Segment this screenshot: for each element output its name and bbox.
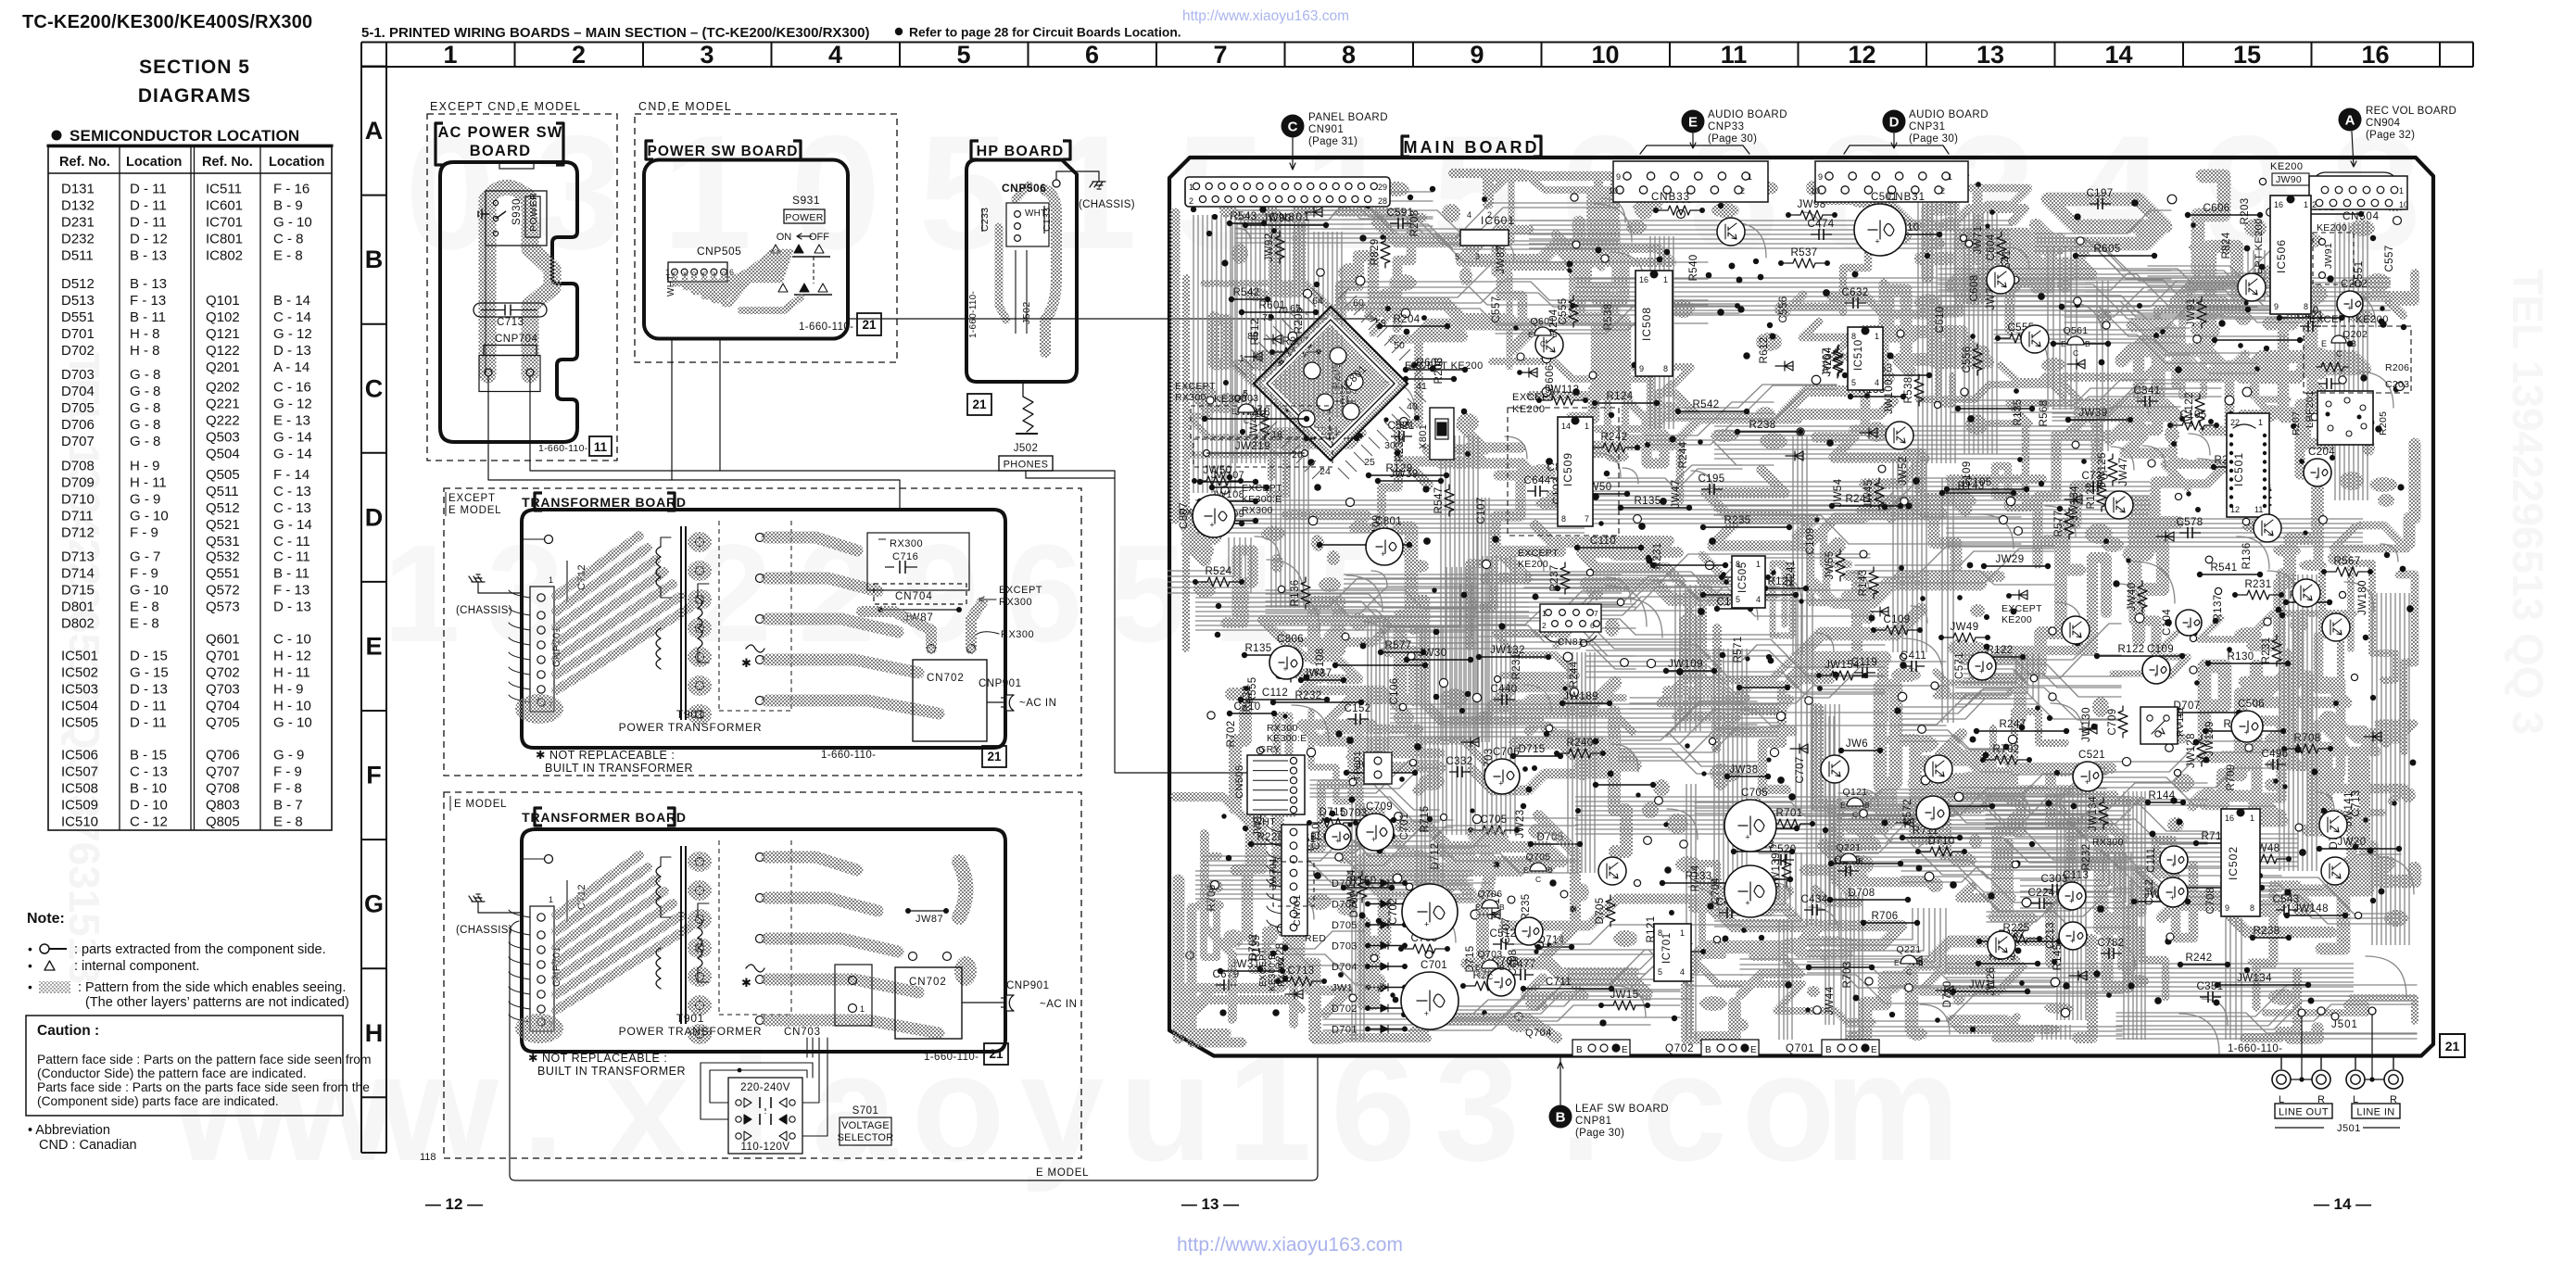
svg-text:R708: R708 [2293, 733, 2320, 744]
svg-text:1: 1 [860, 1004, 865, 1014]
svg-text:J501: J501 [2337, 1123, 2361, 1134]
svg-text:+: + [1381, 549, 1385, 559]
svg-text:E: E [1622, 1045, 1628, 1055]
bottom-left corner fat traces [1173, 880, 1185, 1038]
svg-text:C806: C806 [1277, 634, 1304, 645]
switch S930 block [486, 191, 547, 246]
svg-text:C - 13: C - 13 [273, 500, 311, 516]
svg-text:G - 7: G - 7 [130, 549, 160, 564]
main board vias (filled) [1191, 182, 2417, 1032]
transistor at 2447,570 [2254, 514, 2281, 542]
svg-text:— 13 —: — 13 — [1181, 1195, 1239, 1213]
svg-text:50: 50 [1394, 340, 1405, 351]
svg-text:w: w [275, 1022, 396, 1193]
svg-text:B: B [1705, 1045, 1711, 1055]
svg-text:KE200: KE200 [2001, 614, 2032, 625]
svg-text:Pattern face side : Parts on: Pattern face side : Parts on the pattern… [37, 1053, 371, 1066]
svg-text:C233: C233 [979, 208, 991, 232]
switch S930 contacts [493, 200, 498, 205]
svg-text:1: 1 [1227, 1022, 1312, 1193]
svg-text:C: C [1244, 416, 1249, 425]
test point TP801 [1364, 752, 1392, 784]
svg-text:+: + [1498, 778, 1503, 788]
svg-text:✱: ✱ [741, 976, 751, 990]
svg-text:5: 5 [956, 41, 970, 69]
svg-text:C543: C543 [2272, 894, 2299, 905]
svg-text:Q601: Q601 [206, 632, 240, 648]
svg-text:B - 13: B - 13 [130, 276, 167, 292]
svg-text:G - 14: G - 14 [273, 430, 312, 446]
svg-text:• Abbreviation: • Abbreviation [28, 1123, 110, 1138]
svg-text:10: 10 [1811, 186, 1820, 196]
capacitor C713 [474, 303, 547, 317]
bottom transistor sockets Q70x [1572, 1040, 1630, 1056]
svg-text:JW71: JW71 [1973, 226, 1984, 255]
capacitor C707 [1515, 917, 1543, 945]
svg-text:D704: D704 [61, 384, 95, 399]
svg-text:D - 11: D - 11 [130, 198, 167, 214]
svg-text:IC508: IC508 [61, 781, 98, 797]
svg-text:R612: R612 [1759, 336, 1770, 363]
svg-text:D - 13: D - 13 [273, 599, 311, 614]
svg-text:KE200: KE200 [2317, 222, 2347, 233]
svg-text:R135: R135 [1634, 496, 1661, 507]
svg-text:Q703: Q703 [1478, 949, 1503, 960]
svg-text:: Pattern from the side which: : Pattern from the side which enables se… [78, 980, 346, 995]
dashed secondary box [790, 840, 792, 1015]
svg-text:D711: D711 [61, 508, 94, 524]
svg-text:SECTION 5: SECTION 5 [139, 57, 250, 78]
long wire main board to E model area [510, 930, 1318, 1180]
svg-text:EXCEPT: EXCEPT [1175, 381, 1216, 392]
svg-text:4: 4 [1875, 378, 1879, 387]
svg-text:Q531: Q531 [206, 534, 240, 549]
svg-text:H - 9: H - 9 [273, 682, 304, 698]
svg-text:65: 65 [1290, 303, 1301, 314]
svg-text:Q222: Q222 [206, 413, 240, 429]
svg-text:1: 1 [443, 41, 457, 69]
svg-text:14: 14 [1561, 422, 1571, 431]
svg-text:110-120V: 110-120V [740, 1142, 789, 1153]
svg-text:T901: T901 [676, 708, 705, 721]
svg-text:R231: R231 [2244, 579, 2271, 590]
svg-text:5: 5 [1736, 595, 1740, 604]
svg-text:55: 55 [1375, 318, 1386, 329]
svg-text:D - 10: D - 10 [130, 798, 168, 814]
svg-text:E: E [1231, 407, 1237, 416]
svg-text:75: 75 [1262, 312, 1273, 323]
capacitor C113 [2058, 882, 2086, 910]
chassis ground + wire [478, 902, 522, 913]
E model fat blobs right [959, 862, 966, 917]
svg-text:Q201: Q201 [206, 360, 240, 375]
svg-text:21: 21 [987, 750, 1002, 764]
svg-text:C: C [1288, 120, 1298, 135]
transistor Q803 [1238, 404, 1255, 412]
capacitor C701 [1401, 972, 1458, 1029]
svg-text:JW38: JW38 [1730, 764, 1759, 776]
semiconductor location heading [52, 131, 62, 141]
svg-text:G - 10: G - 10 [273, 715, 312, 731]
svg-text:PHONES: PHONES [1004, 460, 1049, 471]
svg-text:IC701: IC701 [1661, 932, 1673, 964]
fan of copper traces from CNP701 [556, 536, 639, 596]
svg-text:R537: R537 [1790, 247, 1817, 259]
transistor Q601 [1534, 327, 1551, 335]
svg-text:JW40: JW40 [2127, 583, 2138, 612]
svg-text:+: + [1282, 664, 1287, 674]
svg-text:D232: D232 [61, 232, 95, 247]
svg-text:E: E [1834, 856, 1839, 865]
switch contact triangles row2 [778, 284, 788, 292]
svg-text:Q102: Q102 [206, 309, 240, 325]
svg-text:J502: J502 [1014, 443, 1039, 454]
svg-text:Q805: Q805 [206, 814, 240, 830]
svg-text:JW47: JW47 [2118, 458, 2129, 486]
svg-text:1: 1 [2258, 418, 2263, 427]
svg-text:C109: C109 [1962, 461, 1973, 487]
svg-text:X801: X801 [1418, 424, 1429, 449]
svg-text:JW134: JW134 [2237, 973, 2272, 984]
primary coil symbols [656, 866, 661, 907]
svg-text:Q504: Q504 [206, 447, 240, 462]
left edge fat column [1170, 213, 1181, 519]
svg-text:D713: D713 [61, 549, 95, 564]
svg-text:R231: R231 [2261, 637, 2272, 663]
svg-text:R715: R715 [1420, 805, 1431, 832]
svg-text:IC504: IC504 [61, 699, 98, 714]
transformer pad column left [696, 538, 704, 547]
svg-text:6: 6 [1590, 621, 1595, 630]
svg-text:E: E [1840, 801, 1846, 810]
svg-text:C705: C705 [1480, 814, 1507, 826]
svg-text:10: 10 [1591, 41, 1619, 69]
svg-text:Q803: Q803 [206, 798, 240, 814]
svg-text:IC506: IC506 [2275, 239, 2288, 273]
svg-text:Location: Location [269, 155, 324, 170]
main board trace corner arcs [1168, 173, 2417, 1054]
svg-text:R542: R542 [1692, 399, 1719, 410]
CNP505 fan traces [675, 274, 781, 284]
svg-text:JW134: JW134 [2088, 796, 2099, 831]
svg-text:C203: C203 [2385, 379, 2409, 390]
svg-text:LPF201: LPF201 [2305, 390, 2316, 428]
svg-text:✱ NOT REPLACEABLE :: ✱ NOT REPLACEABLE : [528, 1052, 667, 1065]
svg-text:1: 1 [1748, 172, 1752, 182]
svg-text:B: B [1256, 407, 1261, 416]
svg-text:D: D [1889, 115, 1900, 131]
svg-text:C708: C708 [2205, 887, 2216, 914]
svg-text:IC501: IC501 [61, 649, 98, 664]
connector CN505 [1247, 755, 1305, 814]
svg-text:R568: R568 [2039, 399, 2050, 426]
svg-text:E: E [1523, 865, 1529, 875]
svg-text:Q803: Q803 [1234, 393, 1259, 404]
marker E audio board CNP33 [1682, 110, 1705, 133]
svg-text:R136: R136 [2241, 542, 2253, 569]
svg-text:S931: S931 [792, 194, 820, 207]
svg-text:6: 6 [1085, 41, 1099, 69]
main board title [1402, 136, 1409, 157]
svg-text:1: 1 [383, 515, 460, 671]
svg-text:D512: D512 [61, 276, 95, 292]
svg-text:C: C [1540, 339, 1546, 348]
S931 POWER box [784, 209, 825, 223]
svg-text:G - 8: G - 8 [130, 400, 160, 416]
svg-text:C713: C713 [1287, 965, 1314, 977]
svg-text:D709: D709 [61, 474, 95, 490]
svg-text:G - 10: G - 10 [273, 215, 312, 231]
svg-text:B - 15: B - 15 [130, 748, 167, 764]
wire from CNP704 pin2 to main area [530, 376, 1115, 471]
POWER SW BOARD title [646, 141, 653, 159]
svg-text:JW128: JW128 [2186, 733, 2197, 768]
svg-text:H - 11: H - 11 [130, 474, 167, 490]
transistor at 2520,940 [2321, 857, 2349, 885]
svg-text:11: 11 [1721, 41, 1748, 69]
svg-text:C496: C496 [2261, 749, 2288, 760]
svg-text:D802: D802 [61, 615, 95, 631]
svg-text:R701: R701 [1775, 808, 1802, 819]
svg-text:1: 1 [2399, 186, 2404, 196]
svg-text:1: 1 [1496, 246, 1500, 256]
svg-text:R208: R208 [1409, 209, 1421, 236]
svg-text:R577: R577 [2053, 510, 2065, 536]
svg-text:D - 13: D - 13 [130, 682, 168, 698]
svg-text:C521: C521 [2078, 750, 2105, 761]
svg-text:70: 70 [1277, 305, 1288, 316]
svg-text:1-660-110-: 1-660-110- [538, 443, 588, 454]
svg-text:C701: C701 [1421, 960, 1447, 971]
svg-text:Q503: Q503 [206, 430, 240, 446]
svg-text:C556: C556 [1962, 346, 1973, 372]
svg-text:SELECTOR: SELECTOR [838, 1132, 894, 1143]
svg-text:TRANSFORMER BOARD: TRANSFORMER BOARD [522, 495, 687, 510]
svg-text:16: 16 [1271, 429, 1282, 440]
svg-text:C - 13: C - 13 [130, 764, 168, 780]
svg-text:E: E [1894, 958, 1900, 967]
CN702 box [913, 660, 987, 741]
svg-text:Ref. No.: Ref. No. [202, 155, 253, 170]
secondary coil [698, 598, 702, 649]
svg-text:Q601: Q601 [1531, 316, 1556, 327]
transformer pad column left [696, 858, 704, 866]
svg-text:H - 9: H - 9 [130, 458, 160, 473]
transistor at 1980,830 [1821, 755, 1849, 783]
svg-text:•: • [28, 941, 32, 956]
svg-text:G - 9: G - 9 [130, 491, 160, 507]
svg-text:D715: D715 [1518, 744, 1545, 755]
svg-text:C709: C709 [2107, 708, 2118, 735]
wire HP to main board [850, 316, 1377, 322]
svg-text:.: . [522, 1022, 564, 1193]
svg-text:— 14 —: — 14 — [2314, 1195, 2371, 1213]
svg-text:JW26: JW26 [1986, 967, 1997, 996]
svg-text:C - 12: C - 12 [130, 814, 168, 830]
svg-text:24: 24 [1320, 466, 1331, 477]
svg-text:A: A [365, 117, 384, 145]
svg-text:R538: R538 [1603, 303, 1614, 330]
svg-text:E: E [1871, 1045, 1877, 1055]
svg-text:G - 14: G - 14 [273, 517, 312, 533]
transistor at 2521,677 [2322, 613, 2350, 641]
svg-text:Q708: Q708 [206, 781, 240, 797]
svg-text:21: 21 [972, 398, 987, 411]
svg-text:B: B [1547, 865, 1553, 875]
svg-text:C807: C807 [1179, 502, 1190, 529]
svg-text:E - 8: E - 8 [273, 814, 303, 830]
capacitor C572 [1916, 796, 1950, 829]
svg-text:12: 12 [1848, 41, 1875, 69]
svg-text:B: B [1864, 801, 1870, 810]
svg-text:5: 5 [1455, 252, 1459, 261]
capacitor C104 [2176, 610, 2202, 636]
svg-text:2: 2 [572, 41, 586, 69]
capacitor C702 [1402, 884, 1458, 940]
svg-text:F: F [366, 762, 382, 789]
svg-text:21: 21 [2445, 1039, 2460, 1054]
svg-text:+: + [1498, 982, 1503, 991]
IC801 pin rays [1235, 288, 1426, 479]
svg-text:JW52: JW52 [1898, 457, 1909, 486]
svg-text:E: E [1475, 963, 1481, 972]
svg-text:MAIN BOARD: MAIN BOARD [1404, 138, 1540, 157]
svg-text:+: + [2070, 936, 2075, 945]
svg-text:(Conductor Side) the patter: (Conductor Side) the pattern face are in… [37, 1066, 307, 1080]
svg-text:B - 11: B - 11 [273, 565, 309, 581]
LINE IN box [2352, 1104, 2400, 1118]
svg-text:C: C [365, 374, 384, 402]
svg-text:C434: C434 [1800, 894, 1827, 905]
svg-text:CN801: CN801 [1269, 210, 1311, 223]
svg-text:R824: R824 [2221, 232, 2232, 259]
svg-text:CNP81: CNP81 [1575, 1116, 1612, 1127]
svg-text:+: + [2315, 473, 2319, 482]
svg-text:E - 8: E - 8 [273, 248, 303, 264]
AC POWER SW BOARD title [436, 123, 443, 165]
svg-text:•: • [28, 979, 32, 994]
svg-text:x: x [604, 1022, 689, 1193]
svg-text:C152: C152 [1344, 703, 1370, 714]
svg-text:(Page 30): (Page 30) [1708, 133, 1757, 145]
transistor at 2092,830 [1925, 755, 1952, 783]
svg-text:B - 9: B - 9 [273, 198, 303, 214]
svg-text:10: 10 [1609, 186, 1618, 196]
svg-text:GRY: GRY [1258, 744, 1281, 755]
svg-text:CN704: CN704 [895, 591, 933, 602]
svg-text:Q551: Q551 [206, 565, 240, 581]
svg-text:D714: D714 [61, 565, 95, 581]
selector outer wiring [710, 1070, 807, 1103]
svg-text:B - 10: B - 10 [130, 781, 167, 797]
secondary pads + fat fingers [756, 534, 764, 542]
IC508 [1635, 271, 1673, 376]
svg-text:J502: J502 [1021, 301, 1032, 324]
svg-text:RV111: RV111 [2175, 707, 2186, 737]
svg-text:•: • [28, 958, 32, 973]
svg-text:C701: C701 [1399, 813, 1410, 839]
svg-text:9: 9 [1470, 41, 1484, 69]
svg-text:D705: D705 [61, 400, 95, 416]
svg-text:+: + [2171, 860, 2176, 869]
svg-text:(Component side) parts face: (Component side) parts face are indicate… [37, 1094, 279, 1108]
svg-text:JW23: JW23 [1515, 810, 1526, 839]
svg-text:8: 8 [1561, 514, 1566, 524]
svg-text:JW139: JW139 [2204, 721, 2216, 756]
capacitor C202 [2337, 291, 2363, 317]
svg-text:C801: C801 [1375, 516, 1402, 527]
CN703 connector [835, 965, 872, 1026]
capacitor C501 [1854, 204, 1906, 256]
svg-text:C107: C107 [1476, 497, 1487, 524]
svg-text:i: i [729, 1022, 772, 1193]
svg-text:8: 8 [1342, 41, 1356, 69]
svg-text:R237: R237 [1549, 564, 1560, 591]
svg-text:R571: R571 [1733, 636, 1744, 663]
svg-text:JW20: JW20 [2338, 837, 2367, 848]
transformer T901 core [680, 526, 682, 720]
svg-text:G - 8: G - 8 [130, 384, 160, 399]
svg-text:1-660-110-: 1-660-110- [2228, 1043, 2282, 1054]
svg-text:H - 12: H - 12 [273, 649, 311, 664]
svg-text:JW49: JW49 [1951, 622, 1979, 633]
capacitor C801 [1366, 528, 1403, 565]
svg-text:C501: C501 [1871, 192, 1898, 203]
svg-text:TRANSFORMER BOARD: TRANSFORMER BOARD [522, 810, 687, 825]
svg-text:4: 4 [1467, 210, 1471, 220]
svg-text:C608: C608 [1969, 274, 1980, 301]
svg-text:JW45: JW45 [1863, 480, 1875, 509]
svg-text:4: 4 [1680, 967, 1685, 977]
svg-text:Q121: Q121 [1843, 787, 1868, 798]
svg-text:C704: C704 [1711, 877, 1722, 904]
svg-text:Q532: Q532 [206, 549, 240, 564]
svg-text:KE200: KE200 [1512, 404, 1546, 415]
IC509 + except KE200 dashed box [1508, 408, 1619, 536]
connector CN801 [1185, 177, 1390, 207]
svg-text:D703: D703 [1332, 941, 1357, 953]
svg-text:A: A [2345, 113, 2355, 129]
svg-text:RX300: RX300 [1267, 723, 1298, 734]
svg-text:R205: R205 [2378, 411, 2389, 435]
capacitor C710 [1325, 824, 1351, 850]
svg-text:R238: R238 [1749, 420, 1775, 431]
capacitor C706 [1484, 759, 1520, 794]
svg-text:D715: D715 [1319, 807, 1345, 818]
svg-text:Q561: Q561 [2064, 325, 2089, 336]
svg-text:C506: C506 [2238, 699, 2265, 710]
svg-text:E: E [1475, 902, 1481, 912]
svg-text:C: C [1852, 810, 1858, 819]
svg-text:D702: D702 [61, 343, 95, 359]
svg-text:R232: R232 [1395, 435, 1406, 461]
svg-text:D706: D706 [1332, 900, 1357, 911]
svg-text:(Page 30): (Page 30) [1909, 133, 1958, 145]
svg-text:CN504: CN504 [2342, 211, 2380, 222]
transistor at 2287,545 [2105, 491, 2133, 519]
EXCEPT KE200 dashed box Q202 [2304, 326, 2411, 393]
voltage selector block [728, 1078, 802, 1154]
svg-text:80: 80 [1247, 331, 1258, 342]
transistor Q561 [2067, 336, 2084, 345]
svg-text:RX300: RX300 [999, 597, 1032, 608]
svg-text:11: 11 [2254, 505, 2263, 514]
svg-text:✱: ✱ [741, 656, 751, 670]
svg-text:Q221: Q221 [206, 397, 240, 412]
svg-text:C119: C119 [1851, 657, 1877, 668]
svg-text:8: 8 [2250, 903, 2254, 913]
svg-text:R231: R231 [1511, 652, 1522, 679]
